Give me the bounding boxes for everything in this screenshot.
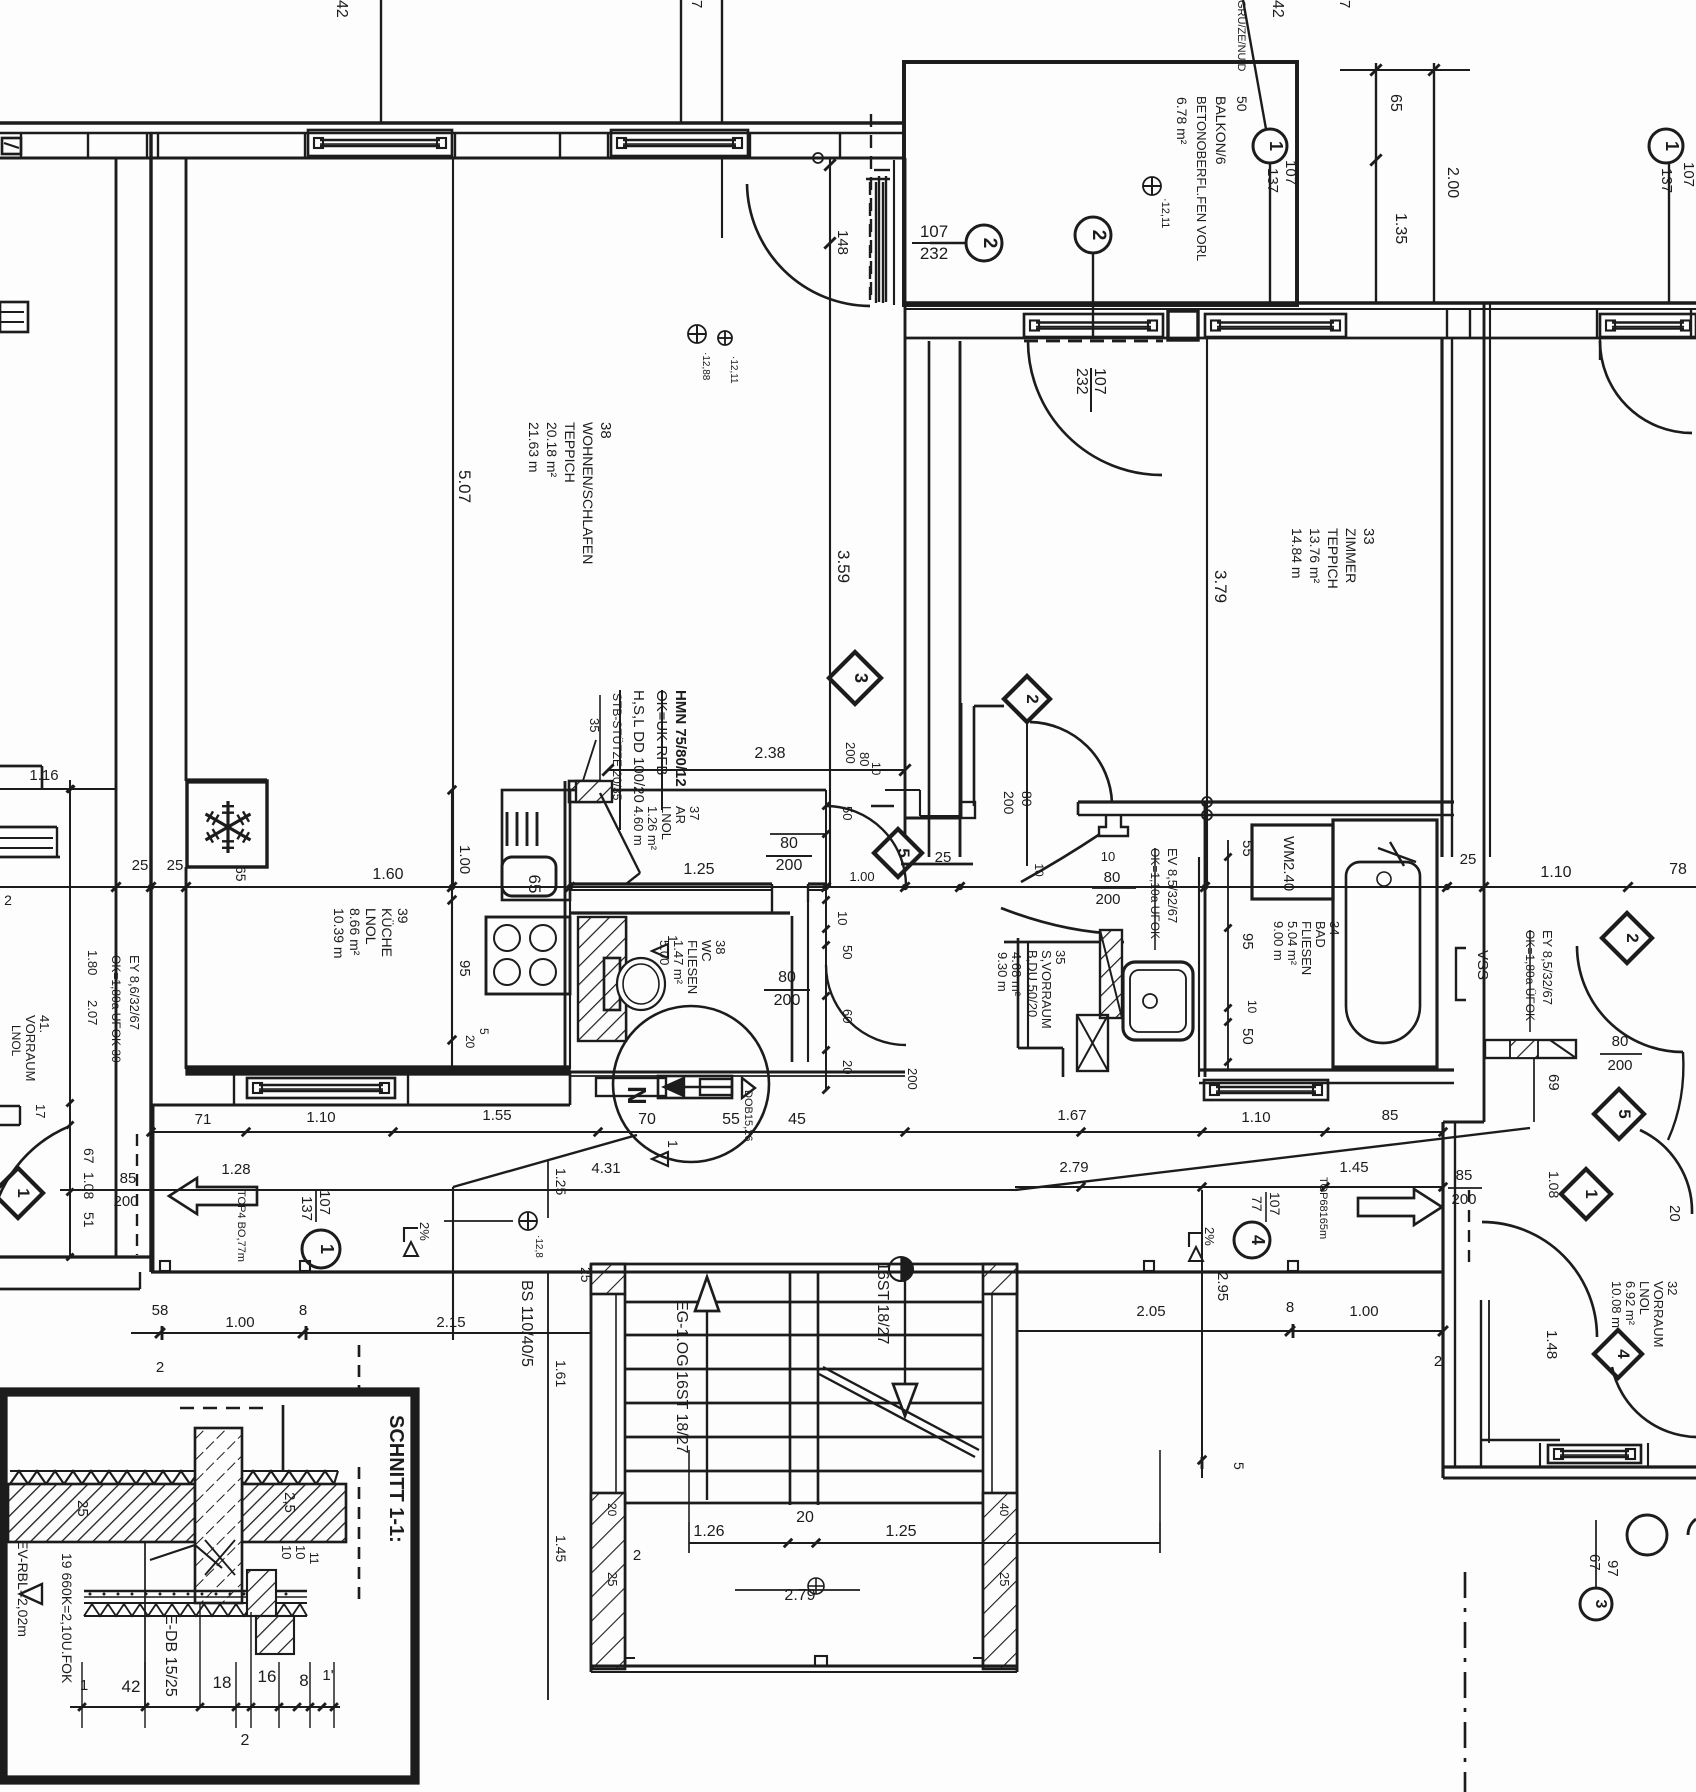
corridor left end wall [152, 1105, 155, 1272]
svg-text:2.38: 2.38 [754, 745, 785, 762]
svg-text:1.47 m²: 1.47 m² [671, 940, 686, 985]
svg-text:2%: 2% [1202, 1227, 1217, 1246]
svg-text:ZIMMER: ZIMMER [1343, 528, 1359, 583]
chain y1187 right part [1015, 1186, 1443, 1188]
svg-text:8.66 m²: 8.66 m² [347, 908, 363, 956]
right apt: inner wall lines [1480, 1300, 1482, 1443]
svg-text:1: 1 [665, 935, 681, 943]
svg-text:200: 200 [905, 1068, 920, 1090]
svg-text:2: 2 [1088, 230, 1109, 241]
AR room top: wall [570, 789, 826, 792]
stub below window W2 [721, 159, 723, 238]
right wall dims 55/95/10/50 [1227, 840, 1229, 1070]
svg-text:TEPPICH: TEPPICH [1325, 528, 1341, 589]
door arc vorraum 35 lower [1001, 908, 1120, 934]
svg-text:1.61: 1.61 [553, 1360, 569, 1387]
vertical ext lines detail [81, 1662, 83, 1728]
svg-text:1.45: 1.45 [1339, 1159, 1368, 1176]
right apt: bottom wall [1443, 1465, 1696, 1468]
svg-text:2: 2 [1023, 694, 1042, 703]
dim verticals 65 / 2.00 / 1.35 top right [1375, 63, 1377, 303]
svg-text:2.05: 2.05 [1136, 1303, 1165, 1320]
svg-text:9.00 m: 9.00 m [1271, 921, 1286, 961]
svg-text:200: 200 [113, 1193, 138, 1210]
svg-text:1.28: 1.28 [221, 1161, 250, 1178]
svg-text:69: 69 [1545, 1074, 1562, 1091]
svg-text:VORRAUM: VORRAUM [23, 1015, 38, 1081]
circle marker 1 with 107/137 top [1253, 129, 1287, 163]
svg-text:2.95: 2.95 [1214, 1272, 1231, 1301]
svg-text:1: 1 [14, 1188, 33, 1197]
svg-text:2: 2 [4, 892, 12, 908]
svg-text:2: 2 [1434, 1353, 1442, 1370]
svg-text:·12,8: ·12,8 [533, 1235, 544, 1258]
pier box between door and window [1168, 311, 1198, 340]
svg-text:1.00: 1.00 [849, 869, 874, 884]
svg-text:5: 5 [477, 1028, 491, 1035]
stair treads [625, 1301, 983, 1304]
survey circle [889, 1257, 913, 1281]
svg-text:HMN 75/80/12: HMN 75/80/12 [672, 690, 689, 787]
svg-text:80: 80 [1019, 791, 1035, 807]
diagonal leader line to 4.31 [1015, 1128, 1530, 1190]
chain node dots [148, 884, 154, 890]
svg-text:10: 10 [1101, 849, 1115, 864]
central stringer [789, 1272, 792, 1505]
svg-text:1.25: 1.25 [553, 1168, 569, 1195]
svg-text:21.63 m: 21.63 m [526, 422, 542, 473]
svg-text:107: 107 [1267, 1192, 1283, 1216]
svg-text:OK=1,80a ÜFOK: OK=1,80a ÜFOK [1523, 930, 1537, 1021]
svg-text:1': 1' [322, 1667, 333, 1684]
svg-text:OK=1,80a UFOK 30: OK=1,80a UFOK 30 [109, 955, 123, 1063]
insulation zigzag top [10, 1471, 338, 1484]
svg-text:4: 4 [1614, 1349, 1633, 1359]
wall corner step down to balcony line [902, 158, 905, 182]
svg-text:25: 25 [167, 857, 184, 874]
door arc room33 to vorraum [1030, 722, 1112, 803]
corridor bottom wall [151, 1270, 591, 1273]
svg-text:WOHNEN/SCHLAFEN: WOHNEN/SCHLAFEN [580, 422, 596, 564]
svg-text:1: 1 [1662, 141, 1682, 151]
window in left edge wall [0, 302, 28, 332]
svg-text:200: 200 [774, 992, 801, 1009]
svg-text:41.: 41. [37, 1015, 52, 1033]
svg-text:25: 25 [997, 1572, 1012, 1586]
level mark corridor [519, 1212, 537, 1230]
svg-text:20: 20 [605, 1503, 619, 1517]
svg-text:8: 8 [299, 1302, 307, 1319]
svg-text:107: 107 [1680, 162, 1696, 187]
stair top line [591, 1263, 1017, 1266]
svg-text:107: 107 [920, 222, 948, 241]
floor layers [84, 1590, 307, 1592]
window W2 living room [611, 130, 748, 156]
svg-text:3.59: 3.59 [834, 550, 853, 583]
svg-text:137: 137 [1264, 168, 1281, 193]
wall: WC band y913 [570, 911, 790, 914]
svg-text:67: 67 [1586, 1554, 1603, 1571]
svg-text:1.26: 1.26 [693, 1523, 724, 1540]
diamond marker 2 mid [1004, 676, 1050, 722]
svg-text:10.08 m: 10.08 m [1609, 1281, 1624, 1328]
svg-text:51: 51 [81, 1212, 97, 1228]
svg-text:EY 8,6/32/67: EY 8,6/32/67 [127, 955, 142, 1030]
kitchen right wall [564, 781, 567, 1069]
svg-text:11: 11 [307, 1552, 321, 1565]
svg-text:10.39 m: 10.39 m [331, 908, 347, 959]
slope arrow 2% corridor left [404, 1228, 418, 1242]
dash-dot property line [1464, 1572, 1467, 1792]
svg-text:FLIESEN: FLIESEN [685, 940, 700, 994]
svg-text:34: 34 [1327, 921, 1342, 935]
svg-text:2: 2 [633, 1547, 641, 1564]
svg-text:200: 200 [843, 742, 858, 764]
kitchen interior window to corridor [247, 1078, 395, 1098]
svg-text:·12,88: ·12,88 [700, 352, 711, 381]
svg-text:2: 2 [241, 1732, 250, 1749]
slanted leader from GRUNDL text [1243, 0, 1266, 129]
door arc top right neighbor [1600, 341, 1692, 433]
svg-text:TOP4 BO,77m: TOP4 BO,77m [235, 1190, 247, 1262]
neighbor window in left wall [878, 176, 880, 302]
detail circle N [613, 1006, 769, 1162]
stove 4 plates [486, 917, 570, 994]
small wall jog left mid [0, 1105, 20, 1107]
hatched pier bottom-left [591, 1493, 625, 1669]
svg-text:38: 38 [597, 422, 614, 439]
window right section 1 [1205, 314, 1346, 337]
svg-text:25: 25 [605, 1572, 620, 1586]
svg-text:32: 32 [1665, 1281, 1680, 1295]
svg-text:55: 55 [722, 1111, 740, 1128]
wall: left party wall verticals [115, 158, 118, 1257]
svg-text:232: 232 [1073, 368, 1090, 395]
svg-text:KÜCHE: KÜCHE [379, 908, 396, 957]
slab hatch left [8, 1484, 195, 1542]
step wall top-left neighbor [0, 765, 42, 768]
rotated dims 50/10/50/60/20 chain [825, 790, 827, 1090]
svg-text:10: 10 [869, 762, 883, 776]
diamond marker 5 mid [874, 829, 922, 877]
column circles bottom right [1627, 1515, 1667, 1555]
svg-text:137: 137 [1658, 168, 1675, 193]
bathroom sink [1123, 962, 1193, 1040]
window far right [1600, 314, 1696, 337]
wall pier left of room33 door [960, 703, 963, 818]
balcony outline 50 BALKON/6 [904, 62, 1297, 305]
svg-text:2: 2 [979, 238, 1000, 249]
svg-text:8: 8 [1286, 1299, 1294, 1316]
svg-text:85: 85 [1456, 1167, 1473, 1184]
svg-text:10: 10 [279, 1545, 294, 1559]
svg-text:5: 5 [1231, 1462, 1247, 1470]
left edge window at chain [0, 826, 57, 829]
svg-text:FLIESEN: FLIESEN [1299, 921, 1314, 975]
svg-text:1.67: 1.67 [1057, 1107, 1086, 1124]
door stop squares [160, 1261, 170, 1271]
kitchen bottom wall black band [186, 1066, 570, 1075]
svg-text:LNOL: LNOL [363, 908, 379, 945]
svg-text:37: 37 [687, 806, 702, 820]
window W-top-left-small [2, 138, 21, 154]
svg-text:VSS: VSS [1474, 950, 1491, 980]
up arrow left flight [695, 1277, 719, 1311]
svg-text:1.00: 1.00 [456, 845, 473, 874]
bathtub [1333, 820, 1437, 1067]
svg-text:8: 8 [299, 1671, 308, 1690]
hatched pier bottom-right [983, 1493, 1017, 1669]
svg-text:5.07: 5.07 [455, 470, 474, 503]
hatched pier top-left [591, 1264, 625, 1294]
chain y1132: 71/1.0/1.55/1.67/1.10/85 [151, 1131, 1443, 1133]
svg-text:95: 95 [1239, 933, 1256, 950]
svg-text:SCHNITT 1-1:: SCHNITT 1-1: [385, 1415, 407, 1543]
svg-text:E-DB 15/25: E-DB 15/25 [162, 1614, 179, 1697]
svg-text:4: 4 [1248, 1235, 1268, 1245]
svg-text:20: 20 [463, 1035, 477, 1049]
svg-text:58: 58 [152, 1302, 169, 1319]
svg-text:4.60 m: 4.60 m [631, 806, 646, 846]
hatched shaft above AR [576, 781, 612, 802]
svg-text:EV 8,5/32/67: EV 8,5/32/67 [1165, 848, 1180, 923]
svg-text:OK=1,10a UFOK: OK=1,10a UFOK [1148, 848, 1162, 939]
svg-text:10: 10 [1245, 1000, 1259, 1014]
svg-text:2%: 2% [417, 1222, 432, 1241]
wall column hatch [195, 1428, 242, 1603]
svg-text:5.00: 5.00 [657, 940, 672, 965]
door arc vorraum36 (lower) [826, 965, 906, 1045]
svg-text:TOP68165m: TOP68165m [1317, 1177, 1329, 1239]
svg-text:50: 50 [840, 945, 855, 959]
chain y1187: 1.28/107-137/4.31/2.79/1.45 [60, 1189, 1015, 1191]
shaft hatch right apt [1485, 1040, 1576, 1058]
svg-text:65: 65 [233, 866, 249, 882]
svg-text:7: 7 [688, 0, 705, 8]
door arc vorraum 35 upper [1021, 834, 1100, 882]
diagonal break line [819, 1374, 975, 1457]
svg-text:1.00: 1.00 [1349, 1303, 1378, 1320]
svg-text:25: 25 [132, 857, 149, 874]
hallway 36 walls [791, 916, 794, 1062]
diamond marker 4 right apt [1594, 1330, 1642, 1378]
dim 3.79 room 33 [1206, 338, 1208, 886]
svg-text:1.80: 1.80 [85, 950, 100, 975]
svg-text:1: 1 [665, 1140, 681, 1148]
kitchen vertical dim 1.00 / 95 [451, 790, 453, 1069]
hatched pier top-right [983, 1264, 1017, 1294]
triangle marks near circle [652, 1152, 668, 1166]
svg-text:200: 200 [1001, 791, 1017, 815]
svg-text:5: 5 [1615, 1109, 1634, 1118]
kitchen left wall [185, 867, 188, 1069]
svg-text:42: 42 [1269, 0, 1286, 18]
svg-text:EV-RBL=2,02m: EV-RBL=2,02m [15, 1540, 31, 1637]
main horizontal dim chain y887 [0, 886, 1696, 888]
svg-text:38: 38 [713, 940, 728, 954]
corridor top line [151, 1104, 570, 1107]
window right apt bottom [1548, 1445, 1641, 1463]
svg-text:1.45: 1.45 [553, 1535, 569, 1562]
svg-text:35: 35 [1053, 950, 1068, 964]
circle marker 2 (left) [966, 225, 1002, 261]
svg-text:107: 107 [1091, 368, 1108, 395]
svg-text:2.40: 2.40 [1280, 862, 1297, 891]
slab hatch right [242, 1484, 346, 1542]
svg-text:BETONOBERFL.FEN VORL: BETONOBERFL.FEN VORL [1194, 96, 1209, 261]
svg-text:EG-1.OG 16ST 18/27: EG-1.OG 16ST 18/27 [673, 1300, 690, 1454]
diamond marker 3 [829, 652, 881, 704]
svg-text:107: 107 [1282, 160, 1299, 185]
svg-text:71: 71 [195, 1111, 212, 1128]
svg-text:·12,11: ·12,11 [1159, 198, 1171, 228]
svg-text:107: 107 [316, 1190, 333, 1215]
svg-text:65: 65 [525, 875, 544, 894]
wall: top exterior (left section) [0, 121, 905, 124]
arc lower right [1612, 1367, 1696, 1437]
wall band bottom-left neighbor [0, 1255, 151, 1258]
arrow entrance left apartment [169, 1178, 257, 1214]
diamond marker 1 left edge [0, 1168, 43, 1218]
T-stub below band [1099, 815, 1128, 836]
svg-text:45: 45 [788, 1111, 806, 1128]
neighbor balcony door dashed line [870, 114, 872, 302]
svg-text:VORRAUM: VORRAUM [1651, 1281, 1666, 1347]
svg-text:14.84 m: 14.84 m [1289, 528, 1305, 579]
diamond marker 5 right [1594, 1089, 1644, 1139]
svg-text:65: 65 [1387, 94, 1404, 112]
diamond marker 2 right [1602, 913, 1652, 963]
stair right wall [1016, 1264, 1019, 1672]
balcony door (dashed) room 33 [1024, 314, 1163, 337]
svg-text:20.18 m²: 20.18 m² [544, 422, 560, 478]
svg-text:GRU/ZE/NU/D: GRU/ZE/NU/D [1235, 0, 1247, 72]
svg-text:1.10: 1.10 [1241, 1109, 1270, 1126]
slope arrow 2% corridor right [1189, 1233, 1203, 1247]
svg-text:1.60: 1.60 [372, 866, 403, 883]
door arc WC (upper) [826, 806, 906, 886]
svg-text:7: 7 [1336, 0, 1353, 8]
VSS bracket [1456, 948, 1466, 1000]
80/200 leader room33 door [1026, 722, 1028, 866]
hatched shaft left of WC [578, 917, 626, 1041]
wall: top exterior right section band [1447, 308, 1696, 310]
kitchen sink unit 65 [502, 790, 570, 900]
svg-text:1.25: 1.25 [683, 861, 714, 878]
svg-text:2: 2 [1623, 933, 1642, 942]
svg-text:2,5: 2,5 [281, 1492, 298, 1513]
detail dim chain [70, 1706, 340, 1708]
diamond marker 1 right [1561, 1169, 1611, 1219]
svg-text:3.79: 3.79 [1211, 570, 1230, 603]
svg-text:EY 8,5/32/67: EY 8,5/32/67 [1540, 930, 1555, 1005]
svg-text:2: 2 [156, 1359, 164, 1376]
dotted screed [89, 1593, 92, 1596]
neighbor door arc bottom-left [0, 1126, 70, 1230]
door arcs right apartment [1577, 946, 1683, 1052]
svg-text:DOB15,26: DOB15,26 [742, 1090, 754, 1141]
chain y1333 right: 2.05/8/1.00/2 [591, 1332, 1443, 1334]
svg-text:6.92 m²: 6.92 m² [1623, 1281, 1638, 1326]
door leaf vorraum 35 [1004, 941, 1124, 944]
svg-text:H,S,L DD 100/20: H,S,L DD 100/20 [630, 690, 647, 803]
svg-text:20: 20 [1666, 1205, 1683, 1222]
svg-text:2.79: 2.79 [1059, 1159, 1088, 1176]
svg-text:18: 18 [213, 1673, 232, 1692]
svg-text:85: 85 [1382, 1107, 1399, 1124]
svg-text:1.10: 1.10 [1540, 864, 1571, 881]
svg-text:50: 50 [1239, 1028, 1256, 1045]
svg-text:25: 25 [1460, 851, 1477, 868]
svg-text:10: 10 [293, 1545, 308, 1559]
svg-text:95: 95 [456, 960, 473, 977]
arc from diamond5 [1640, 1130, 1692, 1214]
WC toilet [604, 958, 620, 1010]
circle marker 2 (mid balcony) [1075, 217, 1111, 253]
window W1 living room [308, 130, 452, 156]
svg-text:10: 10 [835, 911, 850, 925]
vertical 2.95 dim [1201, 1190, 1203, 1478]
vertical dims 1.61/1.45 left of stair [547, 1272, 549, 1700]
svg-text:TEPPICH: TEPPICH [562, 422, 578, 483]
triangle level marker [20, 1584, 42, 1604]
wall: room33 right wall pair [1440, 338, 1443, 857]
svg-text:1.08: 1.08 [81, 1172, 97, 1199]
svg-text:BS 110/40/5: BS 110/40/5 [518, 1280, 535, 1367]
svg-text:40: 40 [997, 1503, 1011, 1517]
svg-text:WM: WM [1280, 836, 1297, 863]
shaft hatched (vent) [1100, 930, 1122, 1018]
svg-text:1.08: 1.08 [1546, 1171, 1562, 1198]
svg-text:2.07: 2.07 [85, 1000, 100, 1025]
stair wall plaster lines [615, 1294, 617, 1493]
washing machine WM 2.40 [1252, 825, 1333, 899]
svg-text:50: 50 [1234, 96, 1250, 112]
svg-text:LNOL: LNOL [1637, 1281, 1652, 1315]
leader from detail circle [453, 1135, 637, 1187]
svg-text:3: 3 [851, 673, 871, 683]
svg-text:70: 70 [638, 1111, 656, 1128]
svg-text:148: 148 [834, 230, 851, 255]
svg-text:1.55: 1.55 [482, 1107, 511, 1124]
svg-text:42: 42 [122, 1677, 141, 1696]
level mark +12.11 balcony [1143, 177, 1161, 195]
dashed line right [358, 1467, 361, 1600]
svg-text:WC: WC [699, 940, 714, 962]
down arrow right flight [904, 1264, 906, 1384]
svg-text:1.26 m²: 1.26 m² [645, 806, 660, 851]
svg-text:200: 200 [1607, 1057, 1632, 1074]
svg-text:13.76 m²: 13.76 m² [1307, 528, 1323, 584]
window bath-corridor [1204, 1080, 1328, 1100]
entrance arrow right apartment [1358, 1189, 1442, 1225]
svg-text:BAD: BAD [1313, 921, 1328, 948]
svg-text:232: 232 [920, 244, 948, 263]
svg-text:39: 39 [395, 908, 411, 924]
wall: mid band right of WC door [901, 863, 973, 866]
living room balcony door (top right) [869, 182, 871, 303]
circle marker 1 with 107/137 right [1649, 129, 1683, 163]
svg-text:2.15: 2.15 [436, 1314, 465, 1331]
svg-text:5.04 m²: 5.04 m² [1285, 921, 1300, 966]
dim chain left x70: 17/67/1.08/51 [69, 780, 71, 1257]
svg-text:137: 137 [298, 1196, 315, 1221]
svg-text:16ST 18/27: 16ST 18/27 [874, 1262, 891, 1345]
svg-text:33: 33 [1360, 528, 1377, 545]
bath/corridor bottom band [1199, 1068, 1454, 1071]
corridor stub rect left of circle [596, 1078, 666, 1096]
svg-text:200: 200 [1095, 891, 1120, 908]
